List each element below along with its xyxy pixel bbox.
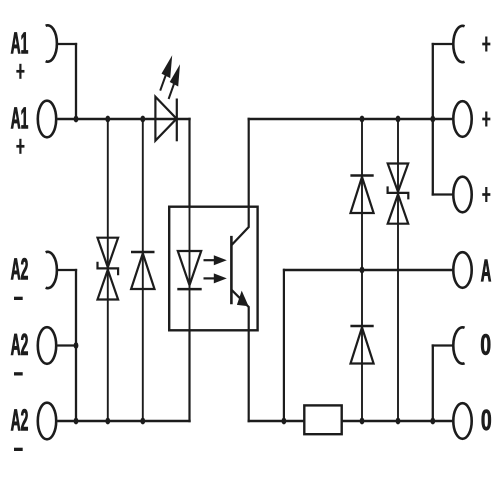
optocoupler light arrow 2 (204, 273, 227, 283)
LED indicator diode (155, 97, 176, 142)
diode D1 column wire x=142.8 (142, 118, 144, 422)
optocoupler light arrow 1 (204, 255, 227, 265)
polarity minus row5 left (14, 372, 23, 375)
diode D1 symbol (131, 252, 155, 289)
phototransistor Q1 collector (231, 118, 248, 246)
wire A1 arc stub (58, 43, 77, 45)
junction dot (398,119) (396, 116, 401, 123)
junction dot (398,421) (396, 418, 401, 425)
terminal plus ellipse (row3 right) (453, 177, 471, 213)
wire node A rail (y=270) (283, 269, 452, 271)
label A2 row4 (11, 258, 28, 279)
terminal plus arc (row1 right) (453, 26, 464, 62)
suppressor TVS1 symbol (98, 238, 119, 300)
optocoupler LED symbol (177, 251, 201, 289)
label A1 row1 (11, 32, 28, 53)
LED indicator arrow 1 (160, 55, 172, 90)
wire right bus plus x=432.8 (432, 43, 434, 196)
junction dot (432.8,421) (430, 418, 435, 425)
suppressor TVS1 column wire x=107.8 (107, 118, 109, 422)
label 0 row6 right (482, 409, 491, 430)
wire A2 middle stub (58, 344, 77, 346)
terminal 0 ellipse (row6 right) (453, 403, 471, 439)
junction dot (142.8,119) (140, 116, 145, 123)
terminal A2 ellipse (row6 left) (38, 403, 56, 440)
wire output bottom rail (y=421) (248, 420, 453, 422)
polarity minus row4 left (14, 297, 23, 300)
terminal A1 arc (row1 left) (46, 25, 57, 61)
junction dot (362,421) (360, 418, 365, 425)
junction dot (76,119) (74, 116, 79, 123)
wire output top rail (y=119) (248, 118, 453, 120)
label A2 row5 (11, 334, 28, 355)
terminal A2 arc (row4 left) (46, 252, 57, 288)
junction dot (76,345.5) (74, 342, 79, 349)
wire left bus A2 x=76 (75, 269, 77, 422)
junction dot (283.9,421) (282, 418, 287, 425)
label A2 row6 (11, 409, 28, 430)
wire node A vertical x=283.9 (283, 269, 285, 422)
polarity plus row2 right (482, 112, 490, 127)
junction dot (432.8,119) (430, 116, 435, 123)
wire A1 top rail (y=119) (58, 118, 191, 120)
diode D2 lower symbol (350, 326, 373, 364)
junction dot (107.8,119) (105, 116, 110, 123)
wire + row3 stub (432, 193, 452, 195)
label 0 row5 right (481, 334, 490, 355)
terminal A2 ellipse (row5 left) (38, 327, 56, 364)
junction dot (362,270) (360, 267, 365, 274)
wire LED drive vertical x=189.5 (188, 118, 190, 422)
terminal A ellipse (row4 right) (453, 252, 471, 288)
label node A row4 right (481, 260, 491, 282)
phototransistor Q1 emitter (231, 290, 248, 423)
suppressor TVS2 column wire x=398 (397, 118, 399, 422)
polarity plus row2 left (16, 139, 24, 154)
terminal plus ellipse (row2 right) (453, 101, 471, 137)
terminal A1 ellipse (row2 left) (38, 101, 56, 138)
wire + arc stub (row1 right) (432, 43, 453, 45)
wire right bus zero x=432.8 (432, 344, 434, 422)
junction dot (362,119) (360, 116, 365, 123)
wire A2 bottom rail left (y=421) (58, 420, 191, 422)
wire A2 arc stub (58, 269, 77, 271)
wire left bus A1 x=76 (75, 43, 77, 119)
junction dot (142.8,421) (140, 418, 145, 425)
polarity plus row1 left (16, 64, 24, 79)
LED indicator arrow 2 (169, 64, 180, 99)
junction dot (107.8,421) (105, 418, 110, 425)
optocoupler U1 box (169, 207, 257, 331)
terminal 0 arc (row5 right) (453, 327, 464, 363)
label A1 row2 (11, 107, 28, 128)
phototransistor Q1 emitter arrowhead (237, 291, 249, 307)
resistor R1 (304, 405, 341, 434)
junction dot (76,421) (74, 418, 79, 425)
phototransistor Q1 base line (230, 236, 233, 304)
wire LED drive vertical inside box x=189.5 (189, 207, 191, 331)
diode D2 column wire x=362 (361, 118, 363, 422)
diode D2 upper symbol (350, 176, 373, 214)
polarity minus row6 left (14, 448, 23, 451)
polarity plus row3 right (482, 187, 490, 202)
suppressor TVS2 symbol (388, 164, 409, 224)
wire 0 arc stub (row5 right) (432, 344, 454, 346)
polarity plus row1 right (482, 37, 490, 52)
